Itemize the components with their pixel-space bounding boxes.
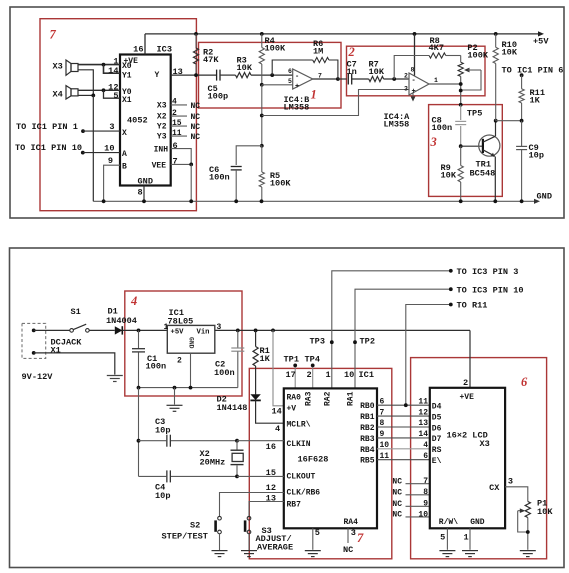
LCD module body (430, 388, 505, 529)
svg-text:TP1: TP1 (284, 355, 299, 365)
svg-text:X: X (122, 129, 127, 138)
svg-text:7: 7 (423, 477, 428, 486)
svg-text:X3: X3 (157, 102, 167, 111)
IC4:A power pin 8 (414, 34, 416, 76)
junction IC4B inv node (270, 73, 274, 77)
svg-text:100K: 100K (265, 43, 286, 53)
svg-text:8: 8 (380, 419, 385, 428)
LCD pin5 ground (440, 528, 447, 550)
svg-text:RB4: RB4 (360, 446, 375, 455)
IC3 +VE label (124, 57, 139, 66)
R5 labels (270, 171, 291, 189)
svg-text:4: 4 (130, 294, 137, 308)
svg-text:X1: X1 (51, 345, 61, 355)
svg-text:INH: INH (154, 146, 169, 155)
junction bias node plus-input (260, 83, 264, 87)
svg-text:NC: NC (392, 489, 402, 498)
diode D2 1N4148 (250, 394, 260, 400)
IC4:A output wire (429, 83, 461, 85)
S3 labels (256, 526, 294, 552)
svg-text:15: 15 (266, 468, 276, 478)
svg-text:1n: 1n (347, 67, 357, 77)
svg-text:10: 10 (380, 441, 390, 450)
X2 labels (200, 449, 226, 468)
ground bus under regulator (137, 386, 238, 390)
label TO IC1 PIN 1 (16, 122, 78, 132)
S2 ground stem (219, 534, 221, 551)
LCD NC stub pin 10 (392, 510, 429, 519)
LCD pin 13 label (418, 419, 428, 428)
svg-text:17: 17 (286, 370, 296, 380)
LCD pin 12 label (418, 408, 428, 417)
S2 labels (162, 521, 208, 542)
P1 wiper arrow (518, 508, 526, 513)
wire jog to IC3 pin5 X1 (104, 90, 121, 98)
svg-text:1: 1 (434, 77, 438, 84)
S3 ground stem (248, 534, 250, 551)
svg-text:7: 7 (357, 531, 364, 545)
svg-text:-: - (295, 73, 299, 81)
wire node to IC3 pin3 X (83, 130, 120, 132)
capacitor C8 100n (455, 105, 466, 146)
IC3 VEE label (152, 157, 178, 171)
LCD pin 6 label (423, 452, 428, 461)
annotation box 1 (199, 42, 342, 108)
ground symbol LCD pin5 (439, 551, 455, 557)
ground symbol regulator (167, 405, 183, 411)
IC3 VEE wire (171, 163, 193, 167)
junction crystal top (235, 439, 239, 443)
bottom panel border (10, 248, 565, 568)
label TO R11 (457, 301, 488, 311)
wire CX to P1 (505, 487, 528, 502)
capacitor C4 10p (139, 470, 238, 482)
svg-text:RA1: RA1 (347, 391, 356, 406)
wire ground drop to crystal (138, 388, 140, 477)
wire node to IC3 pin10 A (83, 152, 120, 154)
svg-text:D6: D6 (432, 424, 442, 433)
IC3 GND label (138, 177, 153, 187)
svg-text:+5V: +5V (171, 328, 185, 336)
LCD NC stub pin 8 (392, 488, 429, 497)
IC3 NC stub Y3/11 (157, 129, 200, 142)
IC3 pin 16 label (133, 44, 143, 54)
svg-text:14: 14 (418, 430, 428, 439)
IC4:A name labels (384, 112, 411, 130)
svg-text:3: 3 (404, 86, 408, 93)
wire D1 to IC1 regulator (122, 329, 167, 331)
PIC pin 4 label (275, 424, 280, 434)
resistor R6 1M (313, 57, 329, 62)
wire RB4 to LCD (377, 448, 430, 450)
svg-text:10K: 10K (237, 63, 253, 73)
svg-text:Y2: Y2 (157, 123, 167, 132)
svg-text:E\: E\ (432, 457, 442, 466)
junction on +5V rail at R4 (260, 32, 264, 36)
wire X3 return (78, 70, 93, 96)
IC3 pin13 Y output wire (171, 74, 216, 76)
svg-text:6: 6 (173, 141, 178, 151)
R7 labels (369, 60, 385, 78)
LCD X3 label (480, 439, 490, 449)
LCD pin 11 label (418, 397, 428, 406)
svg-text:RB5: RB5 (360, 457, 375, 466)
PIC pin 7 label (380, 408, 385, 417)
svg-text:100n: 100n (146, 362, 167, 372)
IC3 A label (122, 150, 127, 159)
svg-text:TO R11: TO R11 (457, 301, 488, 311)
svg-text:100K: 100K (467, 51, 488, 61)
wire base node to TR1 (461, 145, 483, 147)
svg-text:-: - (412, 77, 416, 85)
svg-text:+: + (295, 83, 299, 91)
wire X4 to IC3 pin12 Y0 (78, 89, 120, 91)
svg-text:11: 11 (380, 452, 390, 461)
wire RB2 to LCD (377, 426, 430, 428)
P2 labels (467, 43, 488, 61)
svg-text:16: 16 (266, 442, 276, 452)
svg-text:5: 5 (288, 78, 292, 85)
crystal X2 20MHz (231, 441, 244, 477)
IC3 pin 8 wire to GND rail (142, 186, 146, 204)
R3 labels (237, 55, 253, 73)
annotation box 6 (411, 358, 547, 559)
C6 labels (209, 165, 230, 183)
diode D1 1N4004 (115, 326, 123, 334)
svg-text:5: 5 (440, 532, 445, 542)
junction bias mid (260, 114, 264, 118)
wire C5 to R3 (220, 74, 236, 76)
svg-text:1M: 1M (313, 47, 323, 57)
svg-text:20MHz: 20MHz (200, 458, 226, 468)
ground symbol LCD pin1 (462, 551, 478, 557)
svg-text:GND: GND (470, 518, 485, 527)
IC3 pin 5 label (113, 91, 118, 101)
svg-text:100K: 100K (270, 179, 291, 189)
capacitor C5 100p (217, 70, 220, 81)
wire GND rail (top panel) (93, 200, 534, 202)
PIC inside RA2 rotated (324, 391, 333, 406)
potentiometer P2 100K (458, 56, 463, 106)
svg-text:4K7: 4K7 (429, 43, 444, 53)
PIC inside CLKIN label (287, 440, 311, 449)
svg-text:12: 12 (266, 483, 276, 493)
svg-text:8: 8 (138, 188, 143, 198)
IC1 pin labels (164, 323, 222, 365)
svg-text:13: 13 (418, 419, 428, 428)
svg-text:TO IC1 PIN 6: TO IC1 PIN 6 (502, 65, 564, 75)
svg-text:RB3: RB3 (360, 435, 375, 444)
svg-text:7: 7 (173, 157, 178, 167)
svg-text:X3: X3 (53, 61, 63, 71)
IC4:A power pin 4 (411, 93, 416, 102)
junction collector node (494, 119, 498, 123)
junction TR1 base node (459, 144, 463, 148)
junction R11/C9 node (520, 119, 524, 123)
junction on +5V rail at R2 (194, 32, 198, 36)
svg-text:CLKOUT: CLKOUT (287, 472, 316, 481)
test point TP3 (310, 337, 334, 347)
IC4:B output wire (313, 78, 338, 80)
IC3 INH label (154, 141, 178, 155)
IC3 Y label (155, 71, 160, 80)
connector X1 DCJACK (22, 323, 46, 358)
svg-text:NC: NC (392, 478, 402, 487)
IC3 reference label (157, 44, 172, 54)
P2 wiper loop (461, 70, 481, 90)
svg-text:3: 3 (351, 528, 356, 538)
svg-text:R/W\: R/W\ (439, 518, 458, 527)
wire jack return (34, 353, 115, 375)
PIC inside RB7 label (287, 501, 302, 510)
resistor R1 1K (253, 329, 258, 395)
wire C7 to R7 (352, 78, 369, 80)
PIC pin 12 label (266, 483, 276, 493)
svg-text:RA4: RA4 (344, 518, 359, 527)
IC1 regulator labels (168, 308, 194, 326)
IC3 pin 9 label (108, 156, 113, 166)
svg-text:3: 3 (430, 135, 437, 149)
junction IC4A inv node (392, 77, 396, 81)
svg-text:1N4148: 1N4148 (217, 403, 248, 413)
ground stem regulator (174, 388, 176, 405)
svg-text:1N4004: 1N4004 (106, 316, 137, 326)
svg-text:GND: GND (188, 337, 195, 349)
wire RB1 to LCD (377, 415, 430, 417)
svg-text:S1: S1 (71, 307, 81, 317)
PIC inside CLKOUT label (287, 472, 316, 481)
C4 labels (155, 482, 170, 501)
wire +5V rail (top panel) (145, 33, 538, 35)
TR1 collector wire (495, 121, 497, 137)
svg-text:10p: 10p (529, 150, 544, 160)
IC1 GND lead (190, 353, 192, 387)
wire RB3 to LCD (377, 437, 430, 439)
svg-text:TP5: TP5 (467, 109, 482, 119)
svg-text:6: 6 (521, 375, 528, 389)
junction P2 bottom output (459, 82, 463, 92)
svg-text:NC: NC (392, 511, 402, 520)
svg-text:11: 11 (418, 397, 428, 406)
annotation box 7 (top panel) (40, 19, 196, 211)
label X3 (53, 61, 63, 71)
svg-text:Vin: Vin (197, 328, 210, 336)
svg-text:14: 14 (272, 406, 282, 416)
svg-text:6: 6 (423, 452, 428, 461)
capacitor C9 10p (516, 121, 527, 204)
LCD +VE label (460, 393, 475, 402)
annotation box 7 (bottom) (249, 368, 391, 558)
svg-text:7: 7 (380, 408, 385, 417)
annotation box 3 (429, 105, 503, 197)
R9 labels (441, 163, 457, 181)
label TO IC1 PIN 6 (502, 65, 564, 75)
labels TP1 TP4 (284, 355, 320, 365)
svg-text:10K: 10K (441, 171, 457, 181)
svg-text:RA2: RA2 (324, 391, 333, 406)
R1 labels (260, 346, 271, 364)
wire X3 to IC3 pin1 X0 (78, 64, 120, 66)
+5V arrow terminal (538, 31, 544, 36)
X1 labels (22, 338, 83, 382)
ground symbol PIC pin5 (305, 551, 321, 557)
GND arrow terminal (top panel) (534, 199, 540, 204)
C3 labels (155, 417, 170, 436)
svg-text:TO IC3 PIN 3: TO IC3 PIN 3 (457, 267, 519, 277)
svg-text:RB7: RB7 (287, 501, 302, 510)
svg-text:15: 15 (172, 119, 182, 128)
op-amp IC4:A (409, 73, 429, 96)
svg-text:X4: X4 (53, 90, 63, 100)
junction bias bottom (260, 144, 264, 148)
svg-text:GND: GND (537, 192, 552, 202)
svg-text:TO IC1 PIN 1: TO IC1 PIN 1 (16, 122, 78, 132)
label X4 (53, 90, 63, 100)
svg-text:100p: 100p (208, 91, 229, 101)
wire jog to IC3 pin14 Y1 (104, 65, 121, 74)
ground symbol S2 (212, 551, 228, 557)
wire D2 to MCLR pin4 (256, 400, 284, 423)
label TO IC1 PIN 10 (15, 143, 82, 153)
svg-text:D4: D4 (432, 403, 442, 412)
svg-text:2: 2 (463, 378, 468, 388)
svg-text:RA3: RA3 (305, 391, 314, 406)
svg-text:TP2: TP2 (360, 337, 375, 347)
voltage regulator IC1 78L05 (167, 325, 215, 353)
svg-text:NC: NC (191, 102, 201, 111)
junction C3 tap (137, 439, 141, 443)
svg-text:8: 8 (423, 488, 428, 497)
capacitor C1 100n (132, 330, 145, 387)
IC3 pin 12 label (108, 83, 118, 93)
transistor TR1 BC548 (479, 135, 500, 157)
svg-text:5: 5 (315, 528, 320, 538)
resistor R10 10K (493, 34, 498, 121)
wire pin12 to S2 (220, 493, 284, 517)
LCD 16x2 label (447, 430, 488, 440)
svg-text:4: 4 (275, 424, 280, 434)
svg-text:4: 4 (172, 98, 177, 107)
IC4:A pin labels (404, 67, 438, 93)
svg-text:7: 7 (318, 72, 322, 79)
svg-text:NC: NC (191, 113, 201, 122)
svg-text:6: 6 (380, 397, 385, 406)
annotation label 2 (348, 45, 355, 59)
PIC pin5 ground wire (312, 528, 314, 550)
PIC pin3 NC stub (347, 528, 349, 543)
IC1 PIC16F628 body (284, 388, 377, 528)
wire jack to S1 (34, 329, 70, 331)
capacitor C2 100n (231, 329, 244, 388)
LCD pin 4 label (423, 441, 428, 450)
svg-text:IC3: IC3 (157, 44, 172, 54)
svg-text:2: 2 (177, 356, 182, 365)
resistor R3 10K (236, 73, 252, 78)
IC3 NC stub Y2/15 (157, 119, 200, 132)
junction on +5V rail at IC4 pin8 (413, 32, 417, 36)
svg-text:14: 14 (108, 66, 118, 76)
svg-text:2: 2 (172, 109, 177, 118)
svg-text:Y3: Y3 (157, 133, 167, 142)
wire pin13 to S3 (249, 502, 284, 517)
svg-text:16F628: 16F628 (298, 454, 329, 464)
resistor R4 100K (259, 34, 264, 85)
svg-text:TO IC3 PIN 10: TO IC3 PIN 10 (457, 285, 524, 295)
svg-text:TP3: TP3 (310, 337, 325, 347)
wire RA1 to IC3 pin10 (355, 289, 451, 388)
svg-text:NC: NC (191, 123, 201, 132)
IC4:B pin labels (288, 68, 322, 85)
PIC pin 10 label (380, 441, 390, 450)
C8 labels (432, 115, 453, 133)
svg-text:VEE: VEE (152, 162, 167, 171)
svg-text:X3: X3 (480, 439, 490, 449)
svg-text:B: B (122, 163, 127, 172)
IC3 X label (122, 129, 127, 138)
svg-text:CX: CX (489, 483, 500, 493)
transducer X3 symbol (66, 60, 78, 75)
wire IC4:B out to C7 (338, 78, 347, 80)
junction input node (137, 329, 141, 333)
svg-text:RB0: RB0 (360, 402, 375, 411)
C2 labels (214, 360, 235, 379)
svg-text:10K: 10K (502, 47, 518, 57)
svg-text:BC548: BC548 (470, 168, 496, 178)
svg-text:10K: 10K (537, 507, 553, 517)
label GND (top panel) (537, 192, 552, 202)
svg-text:100n: 100n (432, 123, 453, 133)
C7 labels (347, 60, 357, 78)
svg-text:D7: D7 (432, 435, 442, 444)
test point TP1 wire (293, 364, 297, 389)
svg-text:3: 3 (508, 476, 513, 486)
svg-text:X2: X2 (157, 113, 167, 122)
IC4:B name labels (284, 95, 310, 113)
P1 wiper loop (518, 511, 530, 534)
svg-text:12: 12 (418, 408, 428, 417)
annotation label 3 (430, 135, 437, 149)
junction crystal bottom (235, 475, 239, 479)
resistor R9 10K (458, 146, 463, 203)
feedback wire R6 loop (272, 60, 338, 79)
PIC pin 14 label (272, 406, 282, 416)
PIC pin 5 label (315, 528, 320, 538)
svg-text:5: 5 (113, 91, 118, 101)
wire +5V down to LCD pin2 (469, 330, 471, 387)
junction X4 signal (102, 88, 106, 92)
IC3 pin 16 wire to +5V (144, 34, 146, 55)
resistor R11 1K (519, 75, 524, 121)
IC3 Y0 label (122, 88, 132, 97)
PIC inside RA0 +V labels (287, 393, 302, 413)
IC3 pin 10 label (104, 143, 114, 153)
switch S1 (70, 324, 89, 332)
svg-text:9: 9 (423, 500, 428, 509)
svg-text:2: 2 (348, 45, 355, 59)
resistor R2 47K (193, 34, 198, 75)
svg-text:Y: Y (155, 71, 160, 80)
node TO IC3 PIN 3 (449, 269, 453, 273)
R11 labels (530, 88, 545, 106)
svg-text:9V-12V: 9V-12V (22, 372, 54, 382)
junction X4 return (91, 94, 95, 98)
ground symbol input (107, 376, 123, 382)
wire transducer ground drop (92, 95, 94, 201)
node TO IC1 PIN 1 (81, 129, 85, 133)
PIC top pin labels (286, 370, 374, 380)
wire +V to pin14 (271, 329, 284, 406)
svg-text:1: 1 (164, 323, 169, 332)
